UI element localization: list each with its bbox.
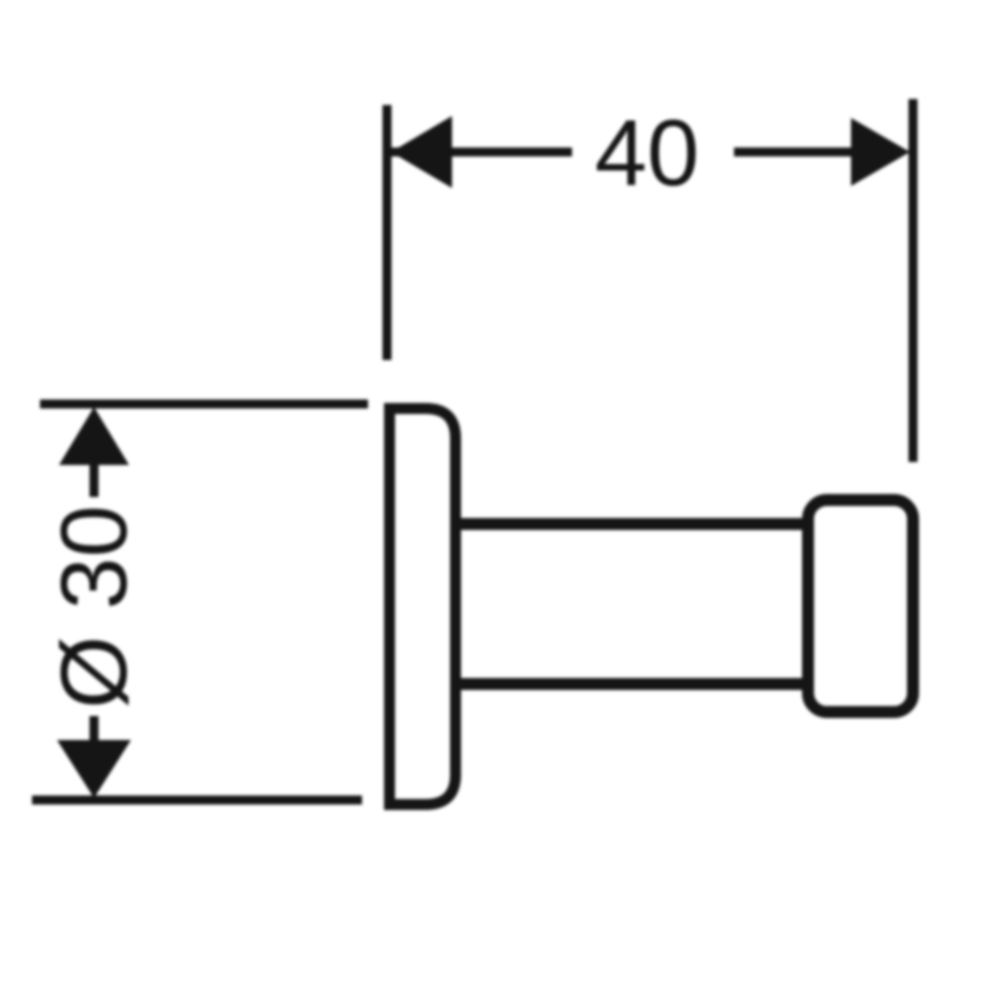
dimension line 40 right segment [734,148,851,157]
end cap [808,500,913,712]
arrowhead left (40 dim) [391,116,452,188]
dimension line Ø30 lower stub [90,716,99,770]
stem bottom line [458,678,808,690]
dimension line 40 left segment [391,148,572,157]
arrowhead down (Ø30 dim) [57,740,131,798]
extension line top (Ø30 dim) [40,400,368,409]
extension line right (40 dim) [909,99,918,462]
arrowhead up (Ø30 dim) [59,407,129,465]
dimension line Ø30 upper stub [90,430,99,497]
svg-text:Ø 30: Ø 30 [41,505,146,709]
arrowhead right (40 dim) [851,118,910,186]
stem top line [458,518,808,530]
extension line bottom (Ø30 dim) [32,796,362,805]
extension line left (40 dim) [383,105,392,360]
svg-text:40: 40 [595,100,700,205]
wall plate [390,409,456,805]
